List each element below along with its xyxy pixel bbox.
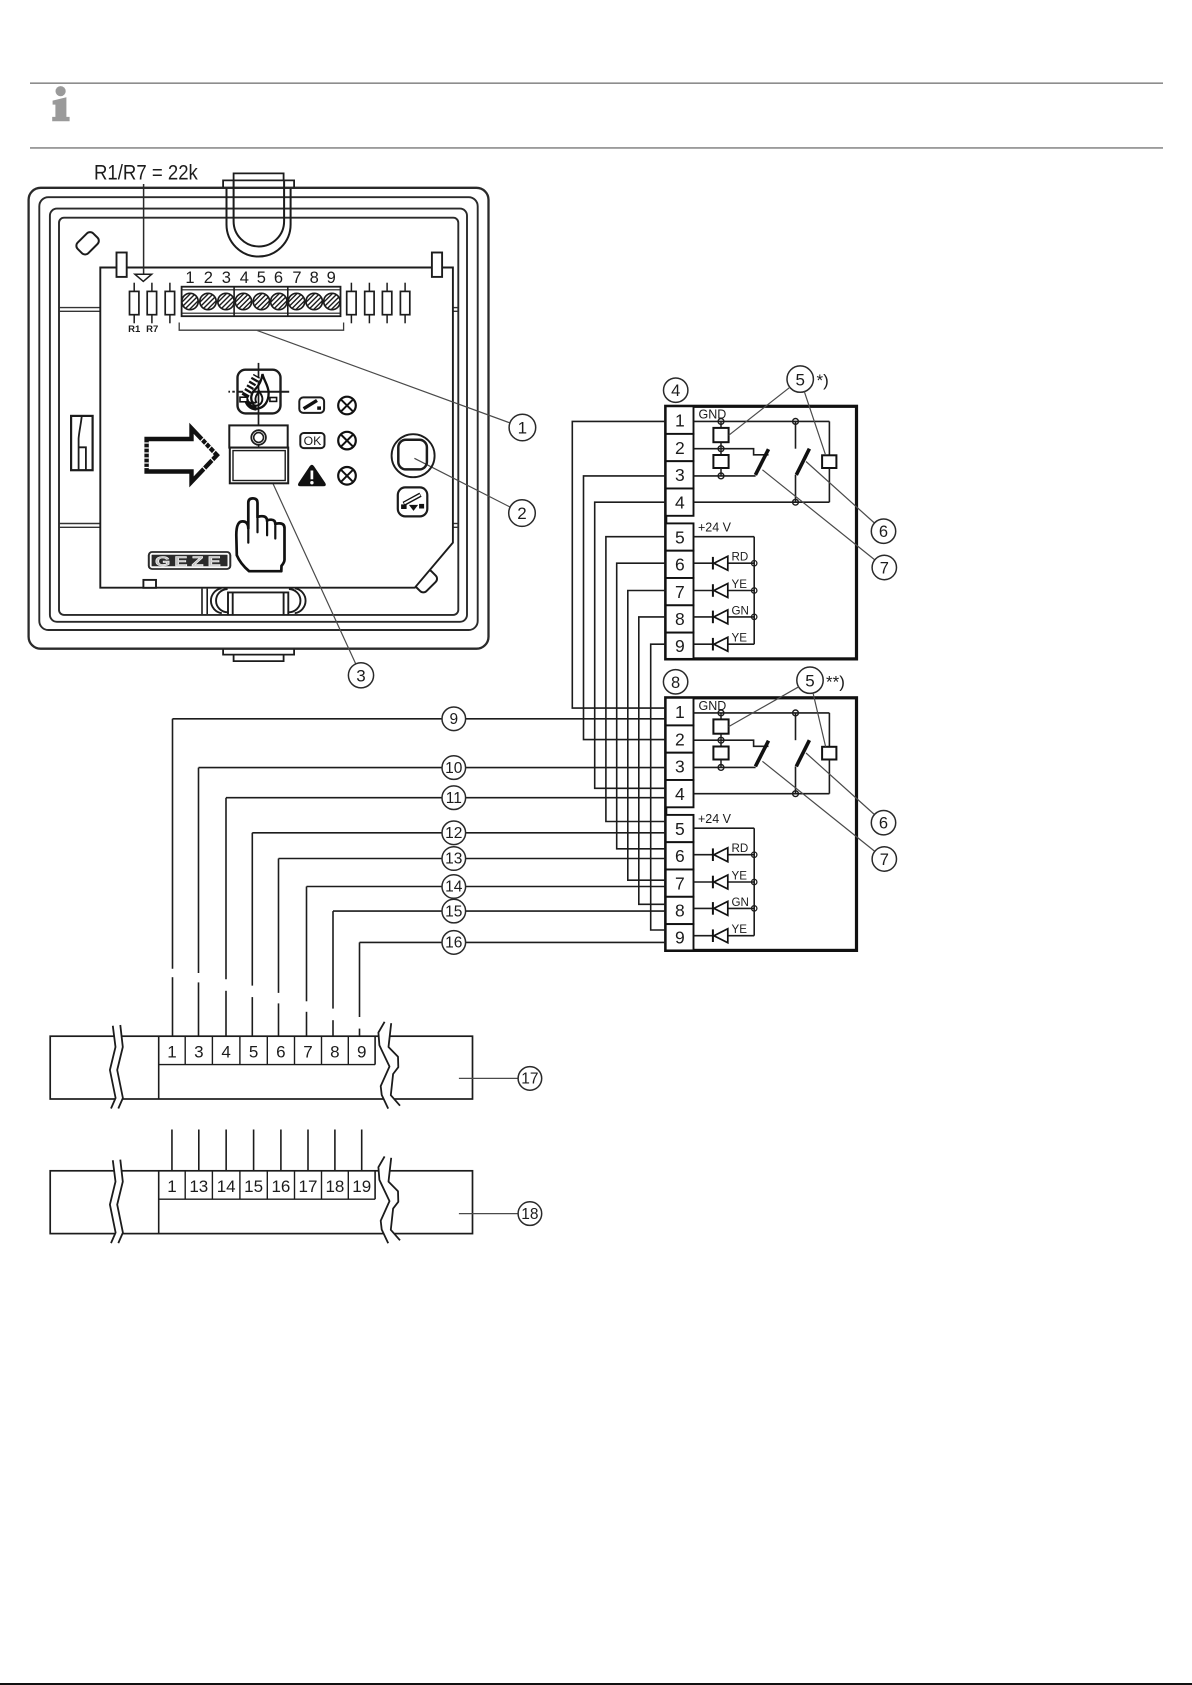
- panel resistor R1: [133, 283, 135, 292]
- bottom cable handle left outer arc: [211, 588, 222, 613]
- callout circle 5 (second): [797, 667, 823, 693]
- block 4 LED RD row wire: [694, 562, 713, 564]
- mounting plate (inner panel): [100, 268, 453, 588]
- svg-text:9: 9: [675, 927, 685, 947]
- leader line to callout 2: [414, 458, 510, 507]
- svg-text:7: 7: [880, 851, 889, 869]
- flame icon left port: [240, 397, 247, 402]
- block 4 wire terminal5 row (+24V): [694, 536, 755, 538]
- flame symbol: [246, 374, 268, 409]
- cable wire 15 drop to distributor: [332, 911, 334, 1009]
- svg-text:YE: YE: [732, 632, 748, 645]
- leader to callout 7 (first): [762, 470, 874, 560]
- svg-text:9: 9: [675, 636, 685, 656]
- terminal screw 2: [200, 293, 216, 309]
- distributor bar 18 body: [50, 1171, 472, 1234]
- svg-text:1: 1: [518, 419, 527, 438]
- svg-text:17: 17: [299, 1177, 318, 1196]
- terminal screw 5: [253, 293, 269, 309]
- device case frame 4 (inner lid): [59, 218, 458, 615]
- block 4 LED YE triangle: [714, 584, 728, 598]
- terminal screw 3: [218, 293, 234, 309]
- service icon lever (outlined): [404, 495, 421, 504]
- distributor bar 17 cell divider 1: [184, 1036, 186, 1064]
- terminal strip divider 1: [233, 287, 235, 317]
- terminal screw 7: [288, 293, 304, 309]
- block 4 node terminal1 right: [793, 419, 799, 425]
- block 8 NC contact blade: [755, 741, 768, 767]
- svg-text:5: 5: [257, 269, 266, 287]
- block 4 resistor upper (22k): [720, 421, 722, 428]
- distributor bar 18 cell divider 6: [321, 1171, 323, 1199]
- block 8 wire terminal1 row: [694, 712, 830, 714]
- svg-text:8: 8: [310, 269, 319, 287]
- svg-text:6: 6: [879, 523, 888, 541]
- svg-text:11: 11: [446, 790, 462, 807]
- service icon left block: [401, 504, 407, 509]
- callout circle 3: [348, 663, 373, 688]
- leader to callout 18: [459, 1213, 518, 1215]
- cable wire 16 drop to distributor: [359, 942, 361, 1017]
- block 8 node terminal1/resistor: [718, 710, 724, 716]
- panel resistor aux right: [404, 283, 406, 292]
- svg-text:6: 6: [274, 269, 283, 287]
- cable wire 9 drop to distributor: [172, 719, 174, 969]
- svg-text:16: 16: [271, 1177, 290, 1196]
- info header rule (top): [30, 82, 1163, 84]
- distributor bar 17 cell group right edge: [374, 1036, 376, 1064]
- block 4 right branch wire: [828, 421, 830, 455]
- terminal strip divider 2: [287, 287, 289, 317]
- leader 5 to right resistor (block 8): [813, 693, 826, 747]
- distributor bar 18 wire stub 18: [334, 1130, 336, 1171]
- block 8 node terminal3/resistor: [718, 765, 724, 771]
- block 4 terminal cell 3: [666, 461, 694, 488]
- distributor bar 18 cell divider 4: [266, 1171, 268, 1199]
- distributor bar 18 left break mark: [110, 1160, 123, 1244]
- svg-text:R7: R7: [146, 324, 158, 335]
- block 4 LED YE cathode bar: [712, 584, 714, 597]
- block 4 LED YE triangle: [714, 637, 728, 651]
- svg-text:15: 15: [445, 903, 462, 920]
- block 8 LED GN cathode bar: [712, 902, 714, 915]
- block 8 right branch wire: [828, 713, 830, 747]
- distributor bar 18 wire stub 14: [225, 1130, 227, 1171]
- terminal screw 8: [306, 293, 322, 309]
- svg-text:18: 18: [325, 1177, 344, 1196]
- distributor bar 18 cell divider 1: [184, 1171, 186, 1199]
- distributor bar 18 wire stub 15: [253, 1130, 255, 1171]
- callout circle 1: [509, 414, 536, 441]
- svg-text:R1/R7 = 22k: R1/R7 = 22k: [94, 161, 199, 185]
- top mounting tab wide step: [223, 180, 294, 187]
- block 8 terminal cell 3: [666, 753, 694, 780]
- panel resistor aux right: [350, 283, 352, 292]
- svg-text:*): *): [817, 371, 829, 390]
- bus wire block4 terminal 8 to block8: [639, 617, 666, 904]
- distributor bar 18 cell group left edge: [158, 1171, 160, 1234]
- block 8 LED GN triangle: [714, 901, 728, 915]
- distributor bar 18 right break mark: [378, 1156, 400, 1243]
- cable wire 12 horizontal run: [252, 832, 665, 834]
- block 8 node terminal4 right: [793, 791, 799, 797]
- block 4 LED GN row wire: [694, 616, 713, 618]
- block 8 terminal cell 7: [666, 870, 694, 897]
- block 4 terminal cell 7: [666, 578, 694, 605]
- block 4 wire terminal2 row to NC contact: [694, 449, 769, 455]
- block 4 terminal cell 4: [666, 489, 694, 516]
- svg-text:7: 7: [303, 1043, 312, 1062]
- callout circle 14: [442, 875, 466, 899]
- distributor bar 18 wire stub 13: [198, 1130, 200, 1171]
- panel rib bottom: [201, 589, 203, 614]
- block 8 NO contact lower lead: [795, 766, 797, 793]
- svg-text:12: 12: [445, 825, 462, 842]
- block 4 LED RD triangle: [714, 556, 728, 570]
- drive lever icon blade: [304, 400, 317, 408]
- svg-text:10: 10: [445, 760, 463, 777]
- block 8 wire terminal5 row (+24V): [694, 827, 755, 829]
- svg-text:**): **): [826, 672, 845, 691]
- block 8 terminal cell 2: [666, 725, 694, 752]
- svg-text:8: 8: [675, 609, 685, 629]
- svg-text:4: 4: [221, 1043, 230, 1062]
- svg-text:YE: YE: [732, 923, 748, 936]
- svg-text:7: 7: [675, 873, 685, 893]
- leader 5 to upper resistor (block 8): [729, 687, 799, 727]
- svg-text:4: 4: [240, 269, 249, 287]
- leader to callout 6 (first): [806, 462, 874, 524]
- svg-text:3: 3: [356, 666, 365, 685]
- block 4 node terminal1/resistor: [718, 419, 724, 425]
- service icon frame: [398, 487, 428, 516]
- service icon right block: [419, 504, 424, 509]
- block 8 LED YE cathode bar: [712, 876, 714, 889]
- OK button icon frame: [300, 433, 324, 448]
- indicator lamp symbol 1: [338, 397, 356, 415]
- block 4 LED GN bus node: [752, 614, 757, 619]
- callout circle 16: [442, 931, 466, 955]
- block 4 NO contact lower lead: [795, 475, 797, 502]
- svg-text:YE: YE: [732, 578, 748, 591]
- svg-text:RD: RD: [732, 842, 749, 855]
- block 4 terminal cell 6: [666, 551, 694, 578]
- panel resistor R7: [151, 283, 153, 292]
- block 8 resistor lower (22k): [720, 740, 722, 746]
- block 8 node terminal2/resistor: [718, 737, 724, 743]
- cable wire 14 drop to distributor: [306, 887, 308, 1002]
- callout circle 2: [509, 500, 536, 527]
- block 8 LED YE triangle: [714, 875, 728, 889]
- pointing hand symbol: [236, 498, 284, 571]
- distributor bar 18 cell divider 2: [211, 1171, 213, 1199]
- svg-text:9: 9: [357, 1043, 366, 1062]
- cable wire 11 drop to distributor: [225, 798, 227, 980]
- fire button icon frame: [238, 370, 281, 414]
- rotated corner clip bottom-right: [413, 568, 439, 594]
- block 4 resistor lower (22k): [720, 449, 722, 455]
- leader 5 to upper resistor: [729, 387, 790, 435]
- block 4 LED RD cathode bar: [712, 557, 714, 570]
- svg-text:5: 5: [805, 671, 814, 690]
- cable wire 9 horizontal run: [173, 718, 666, 720]
- block 8 LED YE cathode bar: [712, 929, 714, 942]
- terminal strip inner top line: [182, 289, 341, 291]
- program switch housing: [229, 425, 287, 447]
- svg-text:13: 13: [445, 851, 462, 868]
- block 4 LED YE row wire: [694, 643, 713, 645]
- block 4 node terminal2/resistor: [718, 446, 724, 452]
- block 8 LED RD cathode bar: [712, 848, 714, 861]
- panel resistor aux left: [169, 283, 171, 292]
- cable wire 14 horizontal run: [307, 886, 666, 888]
- bracket under terminal strip: [179, 323, 343, 331]
- device case frame 3: [50, 209, 467, 622]
- distributor bar 17 cell divider 4: [266, 1036, 268, 1064]
- block 8 terminal cell 9: [666, 924, 694, 950]
- bus wire block4 terminal 6 to block8: [617, 563, 666, 849]
- case seam right upper: [453, 307, 458, 309]
- label R1/R7 = 22k: [94, 161, 199, 185]
- distributor bar 18 wire stub 1: [171, 1130, 173, 1171]
- distributor bar 18 wire stub 16: [280, 1130, 282, 1171]
- terminal screw 9: [324, 293, 340, 309]
- block 4 terminal cell 1: [666, 406, 694, 434]
- block 8 LED YE triangle: [714, 929, 728, 943]
- callout circle 18: [518, 1202, 542, 1226]
- terminal screw 1: [182, 293, 198, 309]
- svg-text:7: 7: [292, 269, 301, 287]
- service icon down triangle: [409, 505, 418, 511]
- direction arrow symbol: [147, 428, 217, 482]
- potentiometer circles: [251, 430, 266, 445]
- distributor bar 18 cell divider 5: [294, 1171, 296, 1199]
- panel clip top-left: [117, 253, 127, 277]
- svg-text:3: 3: [675, 465, 685, 485]
- bus wire block4 terminal 1 to block8: [572, 421, 665, 708]
- distributor bar 17 cell group left edge: [158, 1036, 160, 1099]
- round pushbutton outer circle: [392, 434, 435, 477]
- drive lever icon dot: [317, 406, 321, 409]
- block 8 terminal cell 4: [666, 780, 694, 807]
- bus wire block4 terminal 9 to block8: [651, 644, 666, 930]
- svg-text:GEZE: GEZE: [155, 554, 225, 569]
- distributor bar 17 cell divider 6: [321, 1036, 323, 1064]
- latch slot left side: [71, 416, 93, 470]
- case seam left upper: [60, 307, 100, 309]
- leader from label R1/R7 to resistor: [143, 184, 145, 274]
- bus wire block4 terminal 3 to block8: [584, 476, 666, 740]
- panel resistor aux right: [386, 283, 388, 292]
- terminal strip body: [182, 287, 341, 317]
- distributor bar 18 cell group right edge: [374, 1171, 376, 1199]
- svg-text:GN: GN: [732, 604, 749, 617]
- block 4 LED GN cathode bar: [712, 611, 714, 624]
- cable wire 12 drop to distributor: [251, 833, 253, 986]
- callout circle 7 (first): [872, 555, 896, 579]
- block 8 LED YE row wire: [694, 935, 713, 937]
- distributor bar 17 cell divider 5: [294, 1036, 296, 1064]
- svg-text:9: 9: [449, 711, 458, 728]
- svg-text:RD: RD: [732, 551, 749, 564]
- block 4 LED RD bus node: [752, 561, 757, 566]
- block 8 terminal cell 6: [666, 842, 694, 869]
- top cable handle inner loop / strap: [234, 181, 285, 246]
- block 4 terminal cell 5: [666, 523, 694, 550]
- block 8 LED RD bus node: [752, 852, 757, 857]
- svg-text:19: 19: [352, 1177, 371, 1196]
- indicator lamp symbol 2: [338, 432, 356, 450]
- cable wire 13 horizontal run: [279, 858, 666, 860]
- panel clip bottom-left: [143, 580, 156, 588]
- block 8 node terminal1 right: [793, 710, 799, 716]
- svg-text:14: 14: [217, 1177, 236, 1196]
- case seam left lower: [60, 523, 100, 525]
- svg-text:6: 6: [879, 815, 888, 833]
- svg-text:R1: R1: [128, 324, 141, 335]
- terminal screw 4: [235, 293, 251, 309]
- leader line to callout 3: [267, 470, 356, 665]
- display window inner: [233, 451, 285, 481]
- block 4 series resistor right: [822, 455, 836, 468]
- block 8 LED YE row wire: [694, 881, 713, 883]
- svg-text:4: 4: [675, 492, 685, 512]
- indicator lamp symbol 3: [338, 467, 356, 485]
- block 4 terminal cell 8: [666, 605, 694, 632]
- bottom cable handle left inner arc: [216, 589, 228, 612]
- block 8 NO contact blade: [796, 740, 809, 766]
- svg-text:1: 1: [167, 1043, 176, 1062]
- svg-text:3: 3: [222, 269, 231, 287]
- warning triangle icon: [298, 465, 326, 487]
- block 8 wire terminal2 row to NC contact: [694, 740, 769, 746]
- svg-text:15: 15: [244, 1177, 263, 1196]
- svg-text:2: 2: [517, 504, 526, 523]
- block 4 LED common bus: [753, 537, 755, 645]
- block 4 LED YE cathode bar: [712, 638, 714, 651]
- block 4 wire terminal4 row: [694, 501, 830, 503]
- svg-text:6: 6: [675, 846, 685, 866]
- terminal strip inner bottom line: [182, 312, 341, 314]
- svg-text:4: 4: [675, 784, 685, 804]
- block 8 resistor upper (22k): [720, 713, 722, 720]
- crosshair horizontal line with dots: [228, 391, 230, 393]
- callout circle 4: [664, 378, 688, 402]
- info icon i (grey): [52, 86, 69, 121]
- svg-text:14: 14: [445, 879, 463, 896]
- block 8 terminal cell 5: [666, 815, 694, 842]
- distributor bar 17 left break mark: [110, 1025, 123, 1109]
- distributor bar 18 cell divider 7: [347, 1171, 349, 1199]
- block 4 NO contact upper lead: [795, 421, 797, 448]
- svg-text:+24 V: +24 V: [698, 812, 732, 826]
- bottom cable handle right outer arc: [295, 588, 306, 613]
- leader to callout 7 (second): [762, 761, 874, 851]
- callout circle 6 (first): [871, 519, 895, 543]
- block 4 node terminal3/resistor: [718, 473, 724, 479]
- rotated corner clip top-left: [75, 230, 101, 256]
- leader to callout 17: [459, 1077, 518, 1079]
- block 8 NO contact upper lead: [795, 713, 797, 740]
- svg-text:7: 7: [880, 560, 889, 578]
- callout circle 11: [442, 786, 466, 810]
- terminal screw 6: [271, 293, 287, 309]
- cable wire 10 drop to distributor: [198, 768, 200, 973]
- svg-text:5: 5: [795, 370, 804, 389]
- svg-text:3: 3: [675, 757, 685, 777]
- bus wire block4 terminal 4 to block8: [595, 502, 666, 788]
- terminal block 4 housing: [666, 406, 857, 659]
- distributor bar 17 cell divider 3: [239, 1036, 241, 1064]
- cable wire 10 horizontal run: [199, 767, 666, 769]
- bottom cable handle strap: [228, 592, 288, 615]
- svg-text:16: 16: [445, 935, 462, 952]
- svg-text:2: 2: [204, 269, 213, 287]
- svg-text:+24 V: +24 V: [698, 521, 732, 535]
- svg-text:2: 2: [675, 729, 685, 749]
- svg-text:OK: OK: [304, 434, 322, 448]
- distributor bar 17 cell divider 2: [211, 1036, 213, 1064]
- cable wire 16 horizontal run: [360, 941, 666, 943]
- svg-text:9: 9: [327, 269, 336, 287]
- callout circle 12: [442, 821, 466, 845]
- block 8 LED GN row wire: [694, 907, 713, 909]
- device case frame 2: [39, 197, 477, 630]
- bus wire block4 terminal 7 to block8: [628, 591, 666, 881]
- callout circle 5 (first): [787, 366, 813, 392]
- device outer case outline: [29, 188, 489, 649]
- top cable handle outer loop: [227, 189, 291, 257]
- round pushbutton square face: [398, 440, 427, 470]
- arrowhead of label leader: [135, 274, 152, 281]
- crosshair vertical line: [258, 363, 260, 434]
- thermometer hatched bar: [245, 376, 257, 397]
- bottom mounting tab wide step: [223, 649, 294, 655]
- svg-text:4: 4: [671, 382, 680, 400]
- distributor bar 18 cell divider 3: [239, 1171, 241, 1199]
- svg-text:8: 8: [675, 901, 685, 921]
- svg-text:8: 8: [671, 674, 680, 692]
- block 8 LED GN bus node: [752, 906, 757, 911]
- cable wire 11 horizontal run: [226, 797, 666, 799]
- callout circle 6 (second): [871, 811, 895, 835]
- callout circle 15: [442, 899, 466, 923]
- bus wire block4 terminal 5 to block8: [606, 537, 666, 822]
- distributor bar 18 wire stub 19: [361, 1130, 363, 1171]
- bottom mounting tab narrow step: [234, 655, 284, 662]
- block 8 LED RD triangle: [714, 848, 728, 862]
- svg-text:1: 1: [185, 269, 194, 287]
- block 4 NO contact blade: [796, 449, 809, 475]
- leader line to callout 1: [257, 330, 510, 423]
- terminal block 8 housing: [666, 698, 857, 951]
- callout circle 8: [663, 670, 687, 694]
- GEZE logo: [148, 551, 232, 570]
- svg-text:GN: GN: [732, 896, 749, 909]
- top mounting tab narrow step: [234, 173, 284, 180]
- svg-text:1: 1: [675, 702, 685, 722]
- svg-text:YE: YE: [732, 869, 748, 882]
- page bottom edge strip: [0, 1683, 1192, 1685]
- svg-text:2: 2: [675, 438, 685, 458]
- distributor bar 17 cell row bottom line: [159, 1064, 375, 1066]
- block 8 wire terminal3 row: [694, 766, 756, 768]
- block 4 wire terminal3 row: [694, 475, 756, 477]
- svg-text:18: 18: [521, 1206, 538, 1223]
- svg-text:5: 5: [675, 819, 685, 839]
- block 4 LED YE bus node: [752, 588, 757, 593]
- callout circle 10: [442, 756, 466, 780]
